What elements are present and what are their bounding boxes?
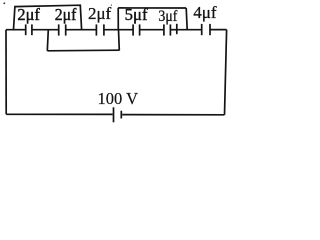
speck dot near box2 bbox=[111, 5, 112, 6]
capacitor C4 5uf right plate bbox=[139, 24, 141, 35]
capacitor C1 2uf right plate bbox=[31, 24, 33, 35]
capacitor C3 2uf left plate bbox=[95, 24, 97, 35]
wire C6 to right corner bbox=[210, 29, 227, 31]
capacitor C3 2uf right plate bbox=[103, 24, 105, 35]
wire C3 to C4 bbox=[104, 29, 133, 31]
wire bottom left bbox=[6, 113, 112, 115]
wire C4 to C5 bbox=[140, 29, 164, 31]
wire bottom right bbox=[122, 114, 224, 116]
wire box1 loop bbox=[14, 5, 82, 30]
node tick plate bbox=[176, 24, 178, 34]
capacitor C6 4uf left plate bbox=[201, 24, 203, 35]
wire C1 to C2 bbox=[32, 29, 59, 31]
wire riser node J1 down bbox=[47, 30, 48, 51]
wire tick to C6 bbox=[177, 29, 202, 31]
svg-text:2μf: 2μf bbox=[88, 4, 112, 23]
battery B1 short plate bbox=[120, 111, 122, 119]
svg-text:4μf: 4μf bbox=[193, 3, 217, 22]
wire outer right wall bbox=[225, 30, 227, 115]
svg-text:2μf: 2μf bbox=[17, 5, 40, 24]
wire main top: left node to C1 bbox=[6, 29, 25, 31]
svg-text:100 V: 100 V bbox=[98, 89, 139, 108]
capacitor C4 5uf left plate bbox=[132, 24, 134, 35]
svg-text:5μf: 5μf bbox=[125, 5, 148, 24]
wire C5 to tick bbox=[170, 29, 176, 31]
wire C2 to C3 bbox=[66, 29, 97, 31]
speck dot top left bbox=[4, 3, 6, 5]
battery B1 100 V long plate bbox=[113, 107, 115, 122]
capacitor C2 2uf left plate bbox=[58, 24, 60, 35]
svg-text:2μf: 2μf bbox=[55, 5, 77, 24]
capacitor C1 2uf left plate bbox=[25, 24, 27, 35]
svg-text:3μf: 3μf bbox=[158, 7, 178, 25]
capacitor C5 3uf right plate bbox=[169, 24, 171, 35]
wire riser node J3 down bbox=[118, 30, 121, 51]
wire box2 loop bbox=[118, 8, 187, 30]
wire outer left wall bbox=[5, 30, 7, 115]
capacitor C2 2uf right plate bbox=[65, 24, 67, 35]
capacitor C5 3uf left plate bbox=[163, 24, 165, 35]
wire lower branch J1 to J3 bbox=[47, 49, 119, 52]
capacitor C6 4uf right plate bbox=[209, 24, 211, 35]
